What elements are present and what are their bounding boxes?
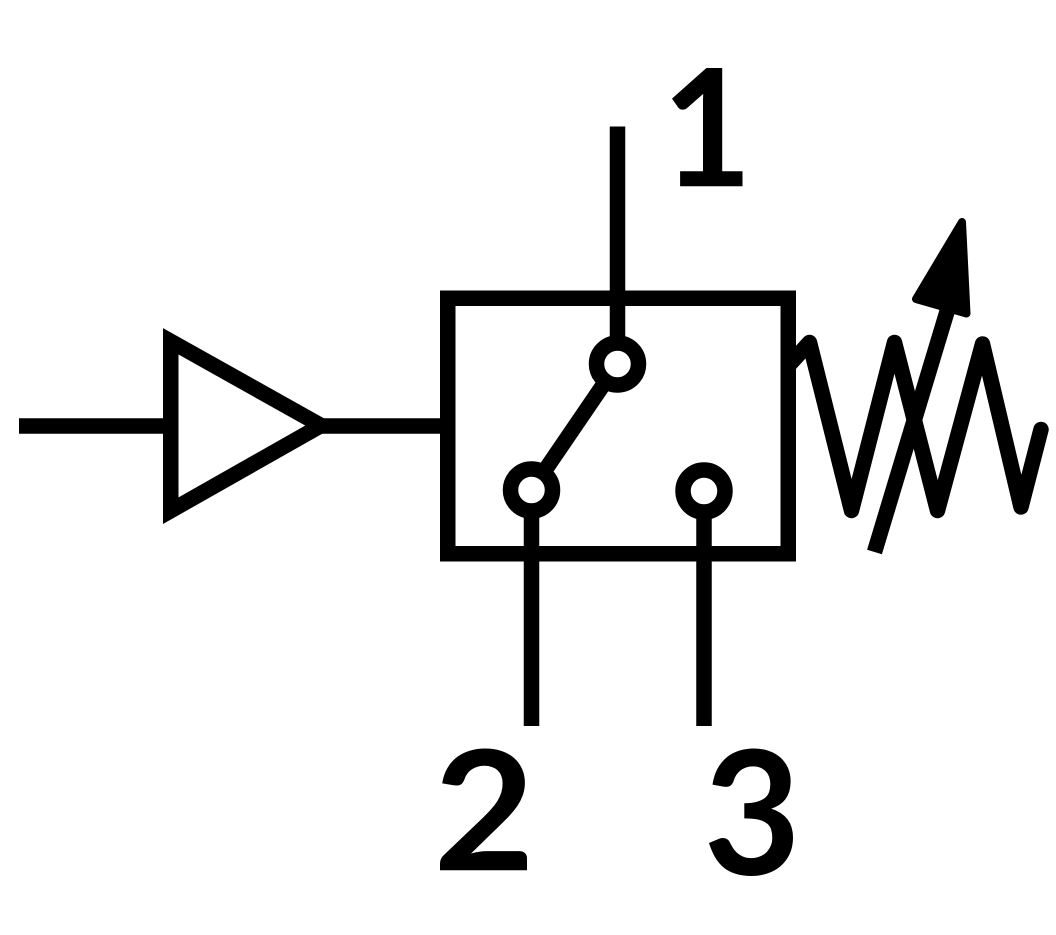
wire pin 3 bbox=[696, 491, 712, 726]
label 3 bbox=[709, 749, 793, 877]
wire input left bbox=[19, 418, 172, 434]
switch box bbox=[448, 298, 789, 554]
wire pin 2 bbox=[524, 490, 540, 726]
spring adjustable bbox=[789, 343, 1041, 511]
arrow shaft bbox=[875, 310, 948, 552]
arrow head bbox=[916, 222, 967, 314]
contact circle pin 3 bbox=[683, 470, 725, 512]
switch lever bbox=[532, 364, 618, 490]
contact circle pin 1 bbox=[597, 343, 639, 385]
wire pin 1 bbox=[610, 127, 626, 365]
contact circle pin 2 bbox=[511, 469, 553, 511]
label 2 bbox=[440, 749, 527, 871]
amplifier triangle bbox=[171, 341, 321, 510]
label 1 bbox=[672, 68, 743, 186]
wire triangle apex to box bbox=[307, 418, 446, 434]
